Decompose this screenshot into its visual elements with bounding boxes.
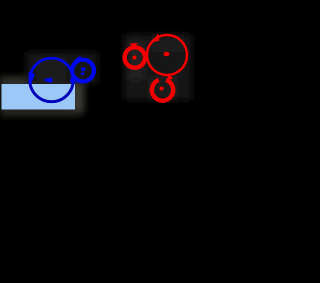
blue small atom center dot xyxy=(81,68,85,72)
red large atom rotation arrowhead (upper-left) xyxy=(152,34,160,43)
blue molecule: large atom rotation circle xyxy=(30,58,74,102)
blue large atom rotation arrowhead (left, pointing down) xyxy=(28,72,35,84)
red small atom bottom center dot xyxy=(160,87,164,91)
blue large atom lower arc (over slab, darker) xyxy=(30,84,73,102)
blue small atom arrowhead top-left xyxy=(75,56,82,62)
red small atom left rotation arrowhead (top) xyxy=(130,43,138,48)
blue small atom inner lower mark xyxy=(81,73,84,76)
blue small atom arrowhead bottom-left xyxy=(70,77,77,84)
blue small atom arrowhead right xyxy=(92,65,97,72)
red molecule: small atom left rotation circle xyxy=(125,47,145,67)
blue center translation arrowhead (pointing left) xyxy=(44,78,48,83)
blue molecule: small atom rotation circle xyxy=(72,60,94,82)
red molecule: small atom bottom rotation circle (open at top) xyxy=(152,80,173,101)
red molecule: large atom rotation circle xyxy=(147,35,187,75)
red large atom center dot xyxy=(164,52,170,57)
jpeg halo around red molecule xyxy=(124,34,192,100)
red small atom left center dot xyxy=(133,56,137,60)
red small atom bottom arrowhead (top, pointing up-right) xyxy=(167,73,173,80)
surface slab xyxy=(2,84,76,110)
blue large atom center dot xyxy=(48,78,53,83)
jpeg halo around surface slab xyxy=(0,34,192,116)
jpeg halo around blue molecule xyxy=(26,52,98,84)
